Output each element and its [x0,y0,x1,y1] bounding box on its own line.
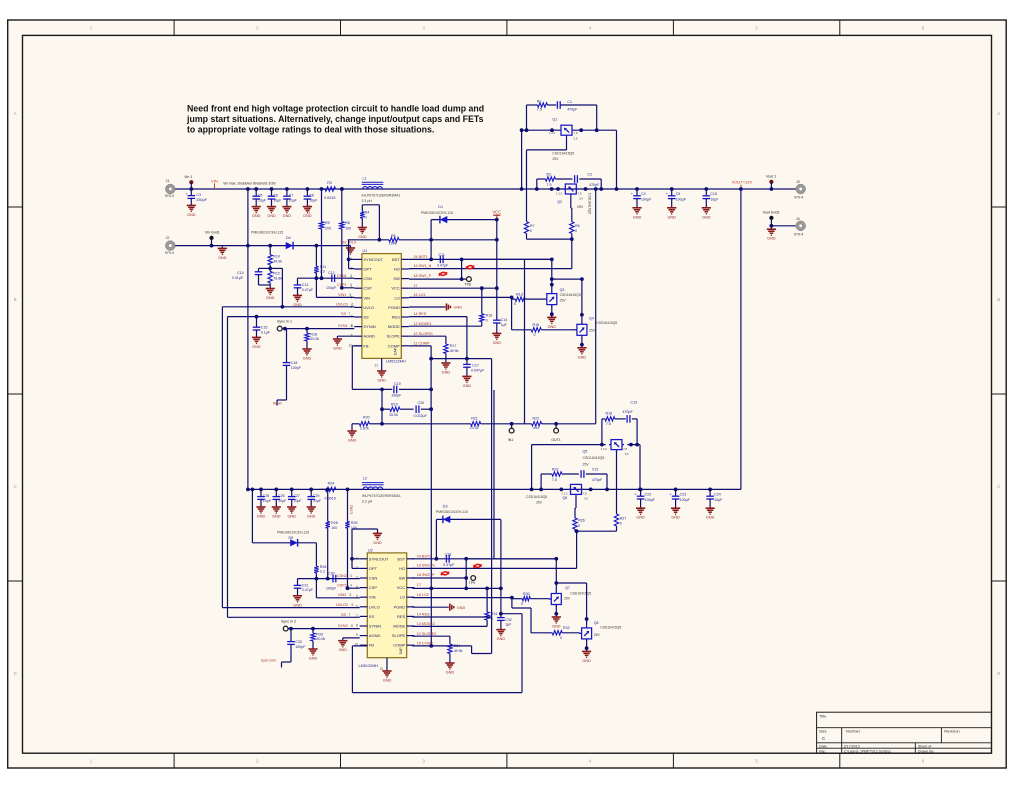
resistor R9 [319,222,323,229]
svg-text:C11: C11 [439,253,445,257]
svg-text:5,6: 5,6 [574,136,578,140]
diode D5 [251,489,253,542]
svg-text:25V: 25V [560,298,567,302]
svg-text:0: 0 [560,636,562,640]
svg-text:C3: C3 [196,193,201,197]
ground [581,345,583,348]
wire VCC2 row [412,587,501,589]
svg-text:GND: GND [339,648,348,652]
svg-text:7.5: 7.5 [606,422,611,426]
ground [492,332,501,334]
wire SW2 row [412,577,466,579]
svg-text:100pF: 100pF [391,394,402,398]
svg-text:CSP2: CSP2 [337,583,347,587]
svg-text:0.022µF: 0.022µF [414,414,428,418]
svg-text:20.0k: 20.0k [310,337,319,341]
svg-text:C4: C4 [641,192,646,196]
svg-text:SS: SS [363,315,369,320]
svg-text:0.47µF: 0.47µF [302,588,314,592]
svg-text:5: 5 [356,595,358,599]
resistor R28 [315,543,317,566]
svg-text:Q2: Q2 [557,200,562,204]
svg-text:FB: FB [369,643,374,648]
svg-text:C32: C32 [505,618,512,622]
svg-text:CSD16415Q5: CSD16415Q5 [583,456,605,460]
svg-text:5,6: 5,6 [625,452,629,456]
svg-text:6: 6 [356,604,358,608]
svg-text:GND: GND [358,235,367,239]
svg-text:UVLO2: UVLO2 [336,603,348,607]
svg-text:100µF: 100µF [645,498,656,502]
svg-text:C19: C19 [631,400,638,404]
svg-text:R27: R27 [620,517,627,521]
svg-text:12 SLOPE2: 12 SLOPE2 [417,632,436,636]
svg-text:7,8: 7,8 [578,192,582,196]
svg-text:0: 0 [534,333,536,337]
svg-text:VCC: VCC [397,585,406,590]
svg-text:B: B [997,297,1000,302]
capacitor C26 [274,488,278,492]
capacitor C25 [259,488,263,492]
resistor R26 gate [573,518,577,529]
capacitor C14b VCC [496,288,498,320]
wire VIN2 row [315,579,317,598]
svg-text:0: 0 [620,522,622,526]
ground [256,506,265,508]
svg-text:Q5: Q5 [583,449,588,453]
ground [252,206,261,208]
resistor R34 [448,644,452,654]
svg-text:LO: LO [394,295,399,300]
no-ERC marker [439,272,447,276]
ground [272,506,281,508]
svg-text:CSN: CSN [363,276,372,281]
svg-text:IHLP6767GZER0R3MA1: IHLP6767GZER0R3MA1 [362,494,401,498]
svg-text:C1: C1 [567,100,572,104]
svg-text:C8: C8 [309,194,314,198]
svg-text:SS: SS [369,614,375,619]
svg-text:CSN2: CSN2 [337,574,347,578]
svg-text:C5: C5 [258,194,263,198]
svg-text:17: 17 [414,284,418,288]
ground [551,314,553,317]
svg-text:GND: GND [252,345,261,349]
svg-text:SYN2: SYN2 [338,624,348,628]
svg-text:C13: C13 [302,283,309,287]
svg-text:494: 494 [533,426,539,430]
svg-text:R31: R31 [491,612,498,616]
svg-text:5,6: 5,6 [579,197,583,201]
ground [445,662,454,664]
wire long vertical spare [493,390,495,559]
svg-text:OPT: OPT [363,267,372,272]
wire Vin Gnd line [175,245,350,247]
svg-text:PGND: PGND [394,604,406,609]
svg-text:C25: C25 [263,494,269,498]
svg-text:Q4: Q4 [589,317,594,321]
connector J4 [797,222,804,229]
svg-text:AGND: AGND [369,633,381,638]
ground [706,507,715,509]
svg-text:5: 5 [350,593,352,597]
wire LO row [409,296,512,298]
ground AGND 2 [343,637,360,639]
svg-text:GND: GND [702,215,711,219]
svg-text:R19: R19 [391,402,398,406]
svg-text:R33: R33 [316,632,323,636]
svg-text:25V: 25V [552,157,559,161]
ground [373,532,382,534]
svg-text:CSN: CSN [369,576,378,581]
svg-text:23.2k: 23.2k [470,426,479,430]
svg-text:COMP: COMP [393,643,405,648]
svg-text:Sync In 1: Sync In 1 [277,320,292,324]
ground [586,648,588,651]
svg-text:24 BST1: 24 BST1 [414,255,428,259]
svg-text:7,8: 7,8 [574,131,578,135]
svg-text:GND: GND [446,671,455,675]
svg-text:Vin 1: Vin 1 [184,175,192,179]
resistor R17 [444,344,448,354]
svg-text:Q7: Q7 [565,586,570,590]
svg-text:GND: GND [309,657,318,661]
svg-text:R21: R21 [471,417,478,421]
capacitor C2 snubber [574,175,576,183]
svg-text:11 COMP: 11 COMP [414,342,430,346]
svg-text:R30: R30 [523,592,530,596]
svg-text:C12: C12 [328,271,335,275]
capacitor C7 [285,187,289,191]
wire MODE row [409,325,482,327]
svg-text:100: 100 [345,226,351,230]
svg-text:10µF: 10µF [263,499,271,503]
ground [287,506,296,508]
svg-text:0.047µF: 0.047µF [471,368,485,372]
svg-text:R26: R26 [351,521,358,525]
resistor R1 snubber [526,105,528,130]
svg-text:12 SLOPE1: 12 SLOPE1 [414,332,433,336]
wire RES2 row [412,616,491,618]
svg-text:Vout 1: Vout 1 [766,174,776,178]
svg-text:13 MODE2: 13 MODE2 [417,622,435,626]
resistor R30 gate [512,598,522,600]
wire FB divider line [382,423,471,425]
svg-text:SYNIN: SYNIN [369,624,381,629]
svg-text:3.3 µH: 3.3 µH [362,199,373,203]
svg-text:R23: R23 [552,467,559,471]
capacitor C6 [270,187,274,191]
svg-text:3.3: 3.3 [320,270,325,274]
svg-text:R6: R6 [575,224,580,228]
svg-text:R11: R11 [320,265,326,269]
svg-text:R5: R5 [391,234,396,238]
svg-text:CSD16415Q5: CSD16415Q5 [570,591,591,595]
transistor Q3 low side [544,292,557,307]
svg-text:4: 4 [351,286,353,290]
svg-text:Sync Gnd: Sync Gnd [261,658,276,662]
svg-text:SLOPE: SLOPE [386,334,400,339]
svg-text:Title: Title [819,714,827,719]
svg-text:PMEG6010CEH,115: PMEG6010CEH,115 [251,230,283,234]
svg-text:7.5: 7.5 [547,183,552,187]
svg-text:5: 5 [351,295,353,299]
svg-text:GND: GND [633,215,642,219]
svg-text:6: 6 [352,603,354,607]
svg-text:AGND: AGND [363,334,375,339]
svg-text:19 SW1_N: 19 SW1_N [414,264,432,268]
svg-text:C17: C17 [472,363,479,367]
svg-text:SYNIN: SYNIN [363,324,375,329]
svg-text:SW: SW [393,276,400,281]
svg-text:100pF: 100pF [291,366,302,370]
svg-text:R12: R12 [273,272,280,276]
svg-text:D: D [997,671,1000,676]
wire VIN bus to channel 2 [246,187,250,191]
ground [293,595,302,597]
svg-text:PMEG6010CEH,115: PMEG6010CEH,115 [421,211,453,215]
svg-text:HO: HO [399,566,405,571]
svg-text:R9: R9 [325,221,330,225]
svg-text:10µF: 10µF [294,499,302,503]
title block [817,712,992,753]
svg-text:3: 3 [356,576,358,580]
ground [307,506,316,508]
wire LO2 row [412,597,512,599]
resistor R32 gate [511,599,513,608]
svg-text:GND: GND [266,296,275,300]
svg-text:10µF: 10µF [278,499,286,503]
resistor R7 gate [524,222,528,234]
svg-text:Q6: Q6 [563,496,568,500]
svg-text:GND: GND [373,541,382,545]
ground [221,246,223,249]
svg-text:D3: D3 [443,505,448,509]
svg-text:MODE: MODE [388,324,400,329]
svg-text:UVLO: UVLO [363,305,374,310]
wire CSP1 row [342,287,355,289]
wire Q5 gate [616,452,618,514]
svg-text:49.9k: 49.9k [454,649,463,653]
svg-text:VCC: VCC [391,286,400,291]
transistor Q7 low side 2 [549,592,562,607]
svg-text:979-4: 979-4 [794,232,803,236]
svg-text:R22: R22 [533,417,540,421]
svg-text:1 2,3: 1 2,3 [561,492,568,496]
svg-text:16 LO1: 16 LO1 [414,293,426,297]
svg-text:3: 3 [350,574,352,578]
wire gate bus 2 to HO2 [575,530,617,532]
svg-text:100µF: 100µF [676,197,687,201]
svg-text:470pF: 470pF [589,183,600,187]
svg-text:GND: GND [303,214,312,218]
capacitor C19 feedback [352,388,392,390]
svg-text:1µF: 1µF [505,623,512,627]
svg-text:RES: RES [392,315,401,320]
resistor R22 [532,422,542,426]
svg-text:0.47µF: 0.47µF [437,264,449,268]
capacitor C3 [190,189,192,196]
capacitor C8 [306,187,310,191]
ground DAP [381,358,383,371]
svg-text:GND: GND [578,355,587,359]
ground AGND [337,335,354,337]
wire COMP link to channel 2 [430,409,432,646]
ground [671,507,680,509]
svg-text:1µF: 1µF [501,323,508,327]
svg-text:R15: R15 [533,323,540,327]
svg-text:1 2,3: 1 2,3 [601,447,608,451]
svg-text:25V: 25V [577,205,584,209]
svg-text:9: 9 [356,633,358,637]
wire CSP2 row [348,587,360,589]
svg-text:4: 4 [356,585,358,589]
svg-text:TP9: TP9 [469,581,475,585]
svg-text:Vin Gnd1: Vin Gnd1 [205,230,220,234]
ground [632,207,641,209]
ground [293,294,302,296]
svg-text:D1: D1 [438,205,443,209]
svg-text:470pF: 470pF [592,478,603,482]
svg-text:979-4: 979-4 [165,194,174,198]
svg-text:7.5: 7.5 [537,107,542,111]
ground [767,228,776,230]
no-ERC marker [466,266,474,270]
svg-text:U1: U1 [363,249,368,253]
connector J3 [797,186,804,193]
svg-text:3: 3 [351,276,353,280]
no-ERC marker [441,572,449,576]
wire UVLO2 row [222,607,359,609]
svg-text:8: 8 [351,324,353,328]
ground [308,648,317,650]
capacitor C29 [309,488,313,492]
svg-text:CSD16415Q5: CSD16415Q5 [600,626,621,630]
svg-text:100µF: 100µF [680,498,691,502]
svg-text:Vout Gnd1: Vout Gnd1 [763,211,780,215]
svg-text:VIN: VIN [363,295,370,300]
svg-text:3.3: 3.3 [320,570,325,574]
svg-text:DAP: DAP [399,647,403,655]
capacitor C17 [431,358,467,360]
svg-text:Date:: Date: [819,744,828,748]
wire MODE2 row [412,625,487,627]
svg-text:1 2,3: 1 2,3 [556,192,563,196]
transistor Q4 low side [581,279,583,323]
resistor R11 [315,244,319,248]
svg-text:24 BST2: 24 BST2 [417,554,431,558]
svg-text:100k: 100k [389,241,397,245]
svg-text:BST: BST [397,556,405,561]
svg-text:CSD16415Q5: CSD16415Q5 [526,495,547,499]
capacitor C14 [259,267,271,269]
svg-text:Q1: Q1 [552,118,557,122]
svg-text:49.9k: 49.9k [450,349,459,353]
svg-text:Revision: Revision [944,729,959,734]
svg-text:GND: GND [267,214,276,218]
ground [347,430,356,432]
svg-text:CSP1: CSP1 [337,283,347,287]
svg-text:100pF: 100pF [326,286,337,290]
svg-text:L2: L2 [363,477,367,481]
svg-text:GND: GND [348,439,357,443]
svg-text:13 MODE1: 13 MODE1 [414,322,432,326]
svg-text:10µF: 10µF [714,498,723,502]
resistor R2 snubber [536,179,538,189]
svg-text:25V: 25V [536,500,543,504]
wire channel 2 input rail [248,488,741,490]
svg-text:VCC: VCC [492,210,501,215]
svg-text:CSD16415Q5: CSD16415Q5 [596,321,617,325]
wire divider to UVLO [270,267,282,269]
svg-text:C29: C29 [313,494,319,498]
svg-text:CSN2: CSN2 [350,505,354,514]
capacitor C24 output 2 [708,488,712,492]
svg-text:CSN1: CSN1 [337,274,347,278]
capacitor C27 [290,488,294,492]
svg-text:SW: SW [399,576,406,581]
svg-text:979-4: 979-4 [165,251,174,255]
wire main input rail [175,188,796,190]
transistor Q5 with snubber [609,440,624,453]
svg-text:10µF: 10µF [258,198,266,202]
svg-text:LO: LO [400,595,405,600]
svg-text:PMEG6010CEH,115: PMEG6010CEH,115 [277,531,309,535]
resistor R8 [340,222,344,229]
wire SYNCOUT2 OPT2 [352,558,360,560]
op-amp U2 LM5122MH controller [367,553,406,658]
svg-text:49.9k: 49.9k [273,259,282,263]
svg-text:1 2,3: 1 2,3 [549,131,556,135]
svg-text:GND: GND [383,679,392,683]
svg-text:25V: 25V [583,462,590,466]
svg-text:GND: GND [307,515,316,519]
wire BST2 row [412,558,556,560]
ground [187,204,196,206]
capacitor C19b snubber [626,415,628,423]
svg-text:5,6: 5,6 [584,497,588,501]
ground [302,348,311,350]
svg-text:C15: C15 [261,326,268,330]
svg-text:R32: R32 [563,626,570,630]
svg-text:Drawn By:: Drawn By: [918,749,935,753]
svg-text:SYNCOUT: SYNCOUT [363,257,383,262]
svg-text:J1: J1 [166,179,170,183]
svg-text:16 LO2: 16 LO2 [417,593,429,597]
svg-text:GND: GND [293,603,302,607]
svg-text:R18: R18 [310,332,317,336]
capacitor C28 [445,555,447,563]
svg-text:7: 7 [356,614,358,618]
capacitor C23 output 2 [674,488,678,492]
terminal OUT1 [554,422,558,426]
wire UVLO link to channel 2 [221,307,223,608]
svg-text:0: 0 [365,215,367,219]
svg-text:78.8k: 78.8k [273,277,282,281]
svg-text:25V: 25V [589,328,596,332]
transistor Q2 sync fet [563,184,578,197]
svg-text:OPT: OPT [369,566,378,571]
svg-text:14 RES: 14 RES [417,613,430,617]
svg-text:0: 0 [578,524,580,528]
svg-text:R20: R20 [363,416,370,420]
svg-text:UVLO: UVLO [369,604,380,609]
ground [496,629,505,631]
ground [555,614,557,617]
zone tick marks [173,20,175,35]
ground [266,288,275,290]
svg-text:GND: GND [582,659,591,663]
wire SS link to channel 2 [227,317,229,618]
